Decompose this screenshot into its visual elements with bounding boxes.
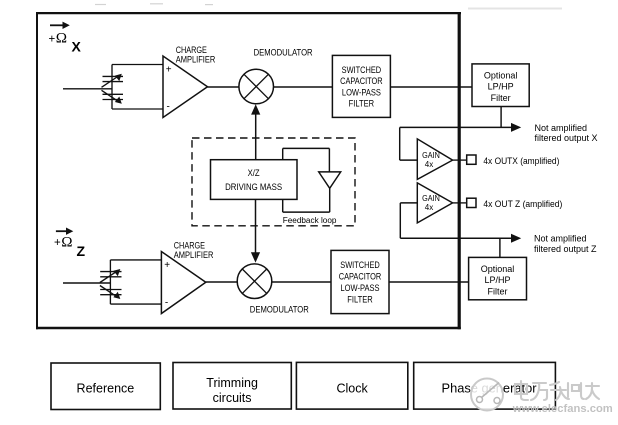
wire tap down to gain X input bbox=[399, 127, 401, 160]
wire opamp Z to demodulator Z bbox=[206, 281, 238, 283]
svg-text:+: + bbox=[166, 65, 172, 76]
svg-text:DEMODULATOR: DEMODULATOR bbox=[250, 304, 309, 314]
svg-text:Reference: Reference bbox=[77, 381, 135, 395]
svg-text:LOW-PASS: LOW-PASS bbox=[341, 283, 380, 293]
svg-text:+: + bbox=[164, 260, 170, 271]
svg-text:SWITCHED: SWITCHED bbox=[342, 65, 382, 75]
svg-text:Not amplified: Not amplified bbox=[535, 123, 588, 133]
wire driving mass down-arrow to demodulator Z bbox=[255, 199, 257, 258]
main block border bbox=[36, 12, 461, 329]
drive loop dashed box bbox=[192, 138, 355, 226]
wire optional filter X down to output line bbox=[500, 107, 502, 128]
wire not-amplified output X bbox=[400, 126, 512, 128]
wire gain X to pad bbox=[453, 159, 467, 161]
wire filter X to optional filter X bbox=[390, 86, 472, 88]
block Clock bbox=[296, 362, 407, 409]
node not amplified filtered output Z bbox=[534, 233, 597, 253]
svg-text:Optional: Optional bbox=[481, 264, 515, 274]
svg-text:CHARGE: CHARGE bbox=[174, 240, 205, 250]
svg-text:4x OUT Z (amplified): 4x OUT Z (amplified) bbox=[483, 199, 562, 209]
node not amplified filtered output X bbox=[535, 123, 598, 143]
svg-text:LP/HP: LP/HP bbox=[488, 82, 514, 92]
svg-text:+: + bbox=[49, 33, 56, 45]
node +Omega Z input label bbox=[54, 228, 86, 260]
sensing element X (variable capacitors) bbox=[102, 65, 164, 110]
svg-text:4x: 4x bbox=[425, 159, 434, 169]
wire sensor X input bbox=[63, 88, 112, 90]
amplifier feedback (down triangle) bbox=[319, 172, 341, 188]
svg-text:filtered output X: filtered output X bbox=[535, 133, 598, 143]
demodulator Z (mixer) bbox=[237, 264, 272, 299]
svg-text:X: X bbox=[72, 38, 82, 54]
watermark chinese characters bbox=[515, 381, 599, 400]
svg-text:Z: Z bbox=[77, 243, 86, 259]
pad 4x OUTX bbox=[467, 155, 476, 164]
svg-text:filtered output Z: filtered output Z bbox=[534, 244, 597, 254]
wire demodulator Z to filter Z bbox=[272, 281, 331, 283]
wire feedback loop bbox=[283, 148, 330, 212]
svg-text:www.elecfans.com: www.elecfans.com bbox=[512, 403, 613, 415]
sensing element Z (variable capacitors) bbox=[100, 260, 161, 304]
wire filter Z to optional filter Z bbox=[389, 281, 469, 283]
svg-text:LP/HP: LP/HP bbox=[484, 275, 510, 285]
wire tap up to gain Z input bbox=[399, 203, 401, 238]
svg-text:-: - bbox=[165, 298, 168, 309]
watermark logo circle bbox=[471, 379, 503, 411]
op-amp charge amplifier Z bbox=[161, 240, 213, 313]
svg-text:Not amplified: Not amplified bbox=[534, 233, 587, 243]
svg-text:Clock: Clock bbox=[336, 381, 368, 395]
op-amp charge amplifier X bbox=[163, 45, 216, 117]
switched capacitor low-pass filter X bbox=[332, 55, 390, 117]
svg-text:X/Z: X/Z bbox=[248, 168, 260, 178]
svg-text:DRIVING MASS: DRIVING MASS bbox=[225, 182, 282, 192]
pad 4x OUT Z bbox=[467, 198, 476, 207]
svg-text:4x: 4x bbox=[425, 202, 434, 212]
wire optional filter Z up to output line bbox=[499, 238, 501, 257]
svg-text:Filter: Filter bbox=[488, 286, 508, 296]
svg-text:circuits: circuits bbox=[213, 391, 252, 405]
block Reference bbox=[51, 363, 160, 410]
svg-text:Optional: Optional bbox=[484, 70, 518, 80]
svg-text:FILTER: FILTER bbox=[347, 295, 373, 305]
optional LP/HP filter Z bbox=[469, 257, 527, 299]
scan smudge top right bbox=[468, 8, 562, 10]
svg-text:Ω: Ω bbox=[56, 30, 67, 47]
wire demodulator X to filter X bbox=[274, 86, 333, 88]
wire opamp X to demodulator X bbox=[208, 86, 240, 88]
svg-text:SWITCHED: SWITCHED bbox=[340, 260, 380, 270]
svg-text:4x OUTX (amplified): 4x OUTX (amplified) bbox=[483, 156, 559, 166]
svg-text:-: - bbox=[167, 102, 170, 113]
svg-text:Trimming: Trimming bbox=[206, 376, 258, 390]
demodulator X (mixer) bbox=[239, 69, 274, 104]
wire driving mass up-arrow to demodulator X bbox=[255, 109, 257, 160]
block Trimming circuits bbox=[173, 363, 291, 410]
svg-text:CAPACITOR: CAPACITOR bbox=[339, 272, 382, 282]
block Phase generator bbox=[414, 362, 556, 409]
amplifier GAIN 4x X bbox=[417, 139, 452, 180]
svg-text:AMPLIFIER: AMPLIFIER bbox=[176, 55, 216, 65]
wire not-amplified output Z bbox=[400, 237, 512, 239]
svg-text:DEMODULATOR: DEMODULATOR bbox=[254, 47, 313, 57]
switched capacitor low-pass filter Z bbox=[331, 250, 389, 313]
svg-text:FILTER: FILTER bbox=[349, 98, 375, 108]
svg-text:Ω: Ω bbox=[61, 234, 72, 251]
svg-text:CHARGE: CHARGE bbox=[176, 45, 207, 55]
node +Omega X input label bbox=[49, 22, 82, 55]
scan marks above top border bbox=[95, 3, 213, 6]
svg-text:CAPACITOR: CAPACITOR bbox=[340, 76, 383, 86]
svg-text:Feedback loop: Feedback loop bbox=[283, 215, 337, 225]
svg-text:LOW-PASS: LOW-PASS bbox=[342, 87, 381, 97]
svg-text:+: + bbox=[54, 237, 61, 249]
wire gain Z to pad bbox=[453, 202, 467, 204]
optional LP/HP filter X bbox=[472, 64, 529, 107]
block X/Z driving mass bbox=[211, 160, 298, 200]
wire sensor Z input bbox=[63, 282, 110, 284]
amplifier GAIN 4x Z bbox=[417, 183, 452, 223]
svg-text:AMPLIFIER: AMPLIFIER bbox=[174, 250, 214, 260]
svg-text:Filter: Filter bbox=[491, 93, 511, 103]
